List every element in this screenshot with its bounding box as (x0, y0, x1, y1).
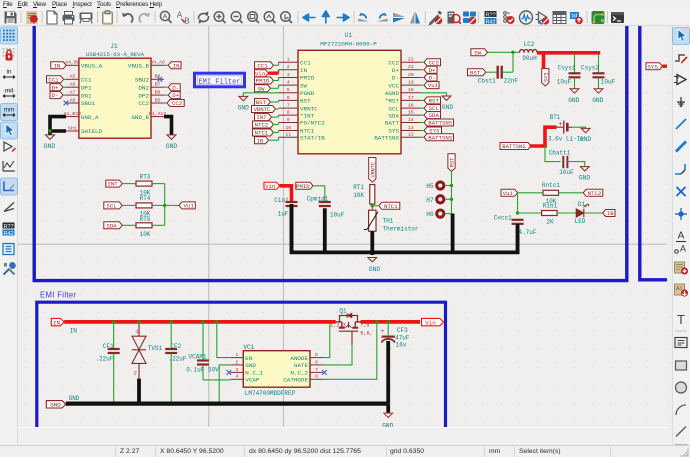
pin 1 CC1 (279, 61, 299, 63)
wire pullup common (164, 184, 166, 226)
pin GND_B (151, 116, 164, 118)
svg-text:in: in (6, 69, 11, 76)
svg-text:10K: 10K (140, 231, 151, 238)
svg-text:INT: INT (107, 181, 118, 188)
pin 10 NTC1 (279, 130, 299, 132)
svg-text:SW: SW (300, 82, 308, 89)
battery BT1 (548, 114, 584, 142)
wire GND_A bus (50, 117, 66, 131)
svg-text:IN: IN (53, 319, 61, 326)
hier label Vin (node) highlighted (264, 182, 280, 189)
wire SYS right highlighted (663, 64, 671, 67)
junction CF1 bottom (112, 402, 115, 405)
svg-text:U1: U1 (345, 32, 353, 39)
wire GND pin riser (219, 365, 230, 404)
svg-text:RT5: RT5 (140, 216, 151, 223)
svg-text:DN2: DN2 (138, 84, 149, 91)
svg-text:GND: GND (592, 97, 603, 104)
svg-text:1uF: 1uF (278, 210, 289, 217)
pin 4 SW (279, 84, 299, 86)
thermistor TH1 (364, 210, 419, 232)
svg-text:D+: D+ (392, 67, 400, 74)
svg-text:6: 6 (287, 95, 290, 101)
svg-text:3: 3 (235, 367, 238, 373)
svg-text:mil: mil (5, 88, 14, 95)
svg-text:17: 17 (408, 95, 414, 101)
svg-text:22: 22 (408, 57, 414, 63)
hier label SDA (node) (104, 222, 123, 229)
pin 22 CC2 (401, 61, 421, 63)
wire Rib1 branch (517, 193, 519, 213)
svg-text:10uF: 10uF (330, 212, 345, 219)
junction H5 (450, 184, 453, 187)
pin 6 GATE (310, 364, 323, 366)
hier label CC2 (U1) (424, 59, 441, 66)
wire Csys1 stub (574, 54, 576, 73)
wire RT1 bottom (371, 204, 373, 210)
svg-text:CC2: CC2 (429, 59, 440, 66)
svg-text:10uF: 10uF (559, 169, 574, 176)
svg-text:mm: mm (4, 107, 15, 114)
capacitor Cpmid1 (307, 195, 345, 218)
ground J1 right (166, 135, 177, 150)
svg-text:PMID: PMID (256, 78, 270, 85)
svg-text:Csys2: Csys2 (581, 65, 599, 72)
wire Csys1 gnd (574, 78, 576, 89)
ground Csys2 (592, 89, 603, 104)
svg-text:3: 3 (287, 72, 290, 78)
ground J1 left (44, 131, 55, 150)
svg-text:10K: 10K (353, 192, 364, 199)
svg-text:PMID: PMID (300, 75, 315, 82)
svg-text:.22uF: .22uF (95, 356, 113, 363)
pin DN2 (151, 86, 164, 88)
svg-text:B5: B5 (155, 97, 161, 103)
svg-text:GND: GND (580, 136, 591, 143)
svg-text:GATE: GATE (294, 362, 309, 369)
wire Rntc1 to NTC2 (559, 192, 584, 194)
svg-text:Vu1: Vu1 (428, 82, 439, 89)
svg-text:TH1: TH1 (383, 217, 394, 224)
wire CATHODE riser (323, 324, 377, 380)
svg-text:BATTSNS: BATTSNS (428, 134, 452, 141)
svg-text:11: 11 (285, 132, 291, 138)
svg-text:D-: D- (429, 75, 436, 82)
hier label SYS (U1 pin13) (424, 127, 442, 134)
wire RT3 right (152, 183, 165, 185)
svg-text:1: 1 (136, 329, 139, 335)
svg-text:D+: D+ (52, 84, 59, 91)
pin 9 FG/NTC2 (279, 122, 299, 124)
svg-text:A1,B12: A1,B12 (64, 111, 82, 117)
svg-text:5: 5 (315, 352, 318, 358)
U1 MP2722GRH-0000-P (298, 32, 401, 154)
svg-text:8: 8 (287, 110, 290, 116)
svg-text:7: 7 (287, 103, 290, 109)
svg-text:BST: BST (300, 98, 311, 105)
hier label BST (U1) (255, 99, 271, 106)
ground BT1 (580, 128, 591, 143)
wire D1 to IB (584, 212, 603, 214)
svg-text:21: 21 (408, 64, 414, 70)
testpoint H5 (426, 182, 451, 190)
svg-text:R42: R42 (485, 19, 495, 25)
pin 4 VCAP (230, 378, 243, 380)
pin DN1 (66, 94, 79, 96)
svg-text:RT3: RT3 (140, 173, 151, 180)
svg-text:SW: SW (474, 49, 481, 56)
svg-text:Vin: Vin (425, 319, 436, 326)
svg-text:NTC2: NTC2 (588, 190, 602, 197)
pin 7 VRNTC (279, 107, 299, 109)
svg-text:B7: B7 (155, 82, 161, 88)
wire RT5 right (152, 224, 165, 226)
hier label SW (U1) (255, 85, 271, 92)
hier label NTC1 (U1) (253, 129, 274, 136)
pin 2 GND (230, 364, 243, 366)
pin GND_A (66, 116, 79, 118)
svg-text:SYS: SYS (543, 72, 549, 82)
capacitor Cin1 (274, 197, 297, 217)
wire Vin highlighted (280, 186, 292, 202)
hier label PMID (U1) (255, 77, 274, 84)
hier label NTC2 (node) (583, 189, 603, 196)
svg-text:H5: H5 (426, 183, 434, 190)
hier label Vu1 (pullups) (179, 202, 195, 209)
svg-text:D-: D- (172, 84, 179, 91)
svg-text:18: 18 (408, 87, 414, 93)
capacitor CF2 (165, 324, 187, 404)
svg-text:IN: IN (70, 328, 78, 335)
wire SYS label drop (542, 53, 546, 69)
svg-text:H6: H6 (426, 211, 434, 218)
svg-text:90uH: 90uH (522, 55, 537, 62)
svg-text:EMI Filter: EMI Filter (198, 78, 240, 86)
hier label RST (vertical) (448, 154, 455, 172)
TVS diode TVS1 (132, 324, 163, 379)
junction CF2 bottom (170, 402, 173, 405)
hier label BATTSNS (U1 pin12) (424, 134, 454, 141)
wire BATTSNS highlighted (530, 127, 557, 146)
svg-text:PGND: PGND (300, 90, 315, 97)
pin DP1 (66, 86, 79, 88)
svg-text:VRNTC: VRNTC (370, 162, 376, 178)
wire Rib1 to D1 (557, 212, 576, 214)
svg-text:12: 12 (408, 132, 414, 138)
capacitor CF3 (380, 324, 410, 349)
resistor Rib1 (542, 202, 558, 225)
svg-text:A: A (177, 11, 183, 20)
svg-text:STAT/IB: STAT/IB (300, 134, 325, 141)
pin SHIELD (66, 130, 79, 132)
svg-text:VBUS_A: VBUS_A (81, 63, 103, 70)
ground Csys1 (568, 89, 579, 104)
svg-text:GND: GND (568, 97, 579, 104)
resistor RT5 (136, 216, 152, 238)
svg-text:19: 19 (408, 80, 414, 86)
hier label D- (J1 left) (50, 92, 63, 99)
svg-text:D+: D+ (429, 67, 436, 74)
hier label VRNTC (vertical) (369, 158, 376, 183)
svg-text:5: 5 (287, 87, 290, 93)
pin 12 BATTSNS (401, 136, 421, 138)
svg-text:LC2: LC2 (524, 41, 535, 48)
svg-text:7,8: 7,8 (360, 323, 369, 329)
svg-text:USB4215-03-A_REVA: USB4215-03-A_REVA (86, 51, 145, 58)
svg-text:D+: D+ (172, 92, 179, 99)
svg-text:RT4: RT4 (140, 195, 151, 202)
svg-text:SDA: SDA (388, 112, 399, 119)
svg-text:Vin: Vin (255, 70, 265, 77)
wire TH1 down (370, 231, 374, 255)
pin CC2 (151, 102, 164, 104)
svg-text:A6: A6 (69, 82, 75, 88)
wire Cbst1 to SW node (502, 71, 513, 73)
hier label CC1 (J1) (47, 76, 64, 83)
svg-text:1,2,3: 1,2,3 (330, 323, 346, 329)
ground EMI sheet (382, 413, 393, 429)
svg-text:J1: J1 (110, 43, 118, 50)
pin 6 BST (279, 99, 299, 101)
svg-text:EN: EN (245, 355, 253, 362)
svg-text:B6: B6 (155, 90, 161, 96)
hier label INT (node) (106, 180, 123, 187)
no-connect SBU1 (64, 101, 69, 106)
hier label BST (node) (468, 69, 486, 76)
junction CATHODE (375, 320, 378, 323)
junction VCAP1 top (201, 320, 204, 323)
svg-text:EMI Filter: EMI Filter (40, 291, 76, 300)
svg-text:Cvcc1: Cvcc1 (494, 214, 512, 221)
svg-text:Thermistor: Thermistor (383, 225, 419, 232)
wire GND_B (164, 117, 172, 135)
wire BST to Cbst1 (486, 71, 497, 73)
wire Cbatt1 to gnd (567, 162, 584, 167)
wire RST down (451, 171, 453, 185)
hier label NTC1 (node) (379, 202, 400, 209)
svg-text:SW: SW (258, 85, 265, 92)
svg-text:ANODE: ANODE (290, 355, 308, 362)
svg-text:CC2: CC2 (172, 100, 183, 107)
wire GATE riser (323, 345, 352, 365)
pin DP2 (151, 94, 164, 96)
svg-text:*RST: *RST (385, 98, 400, 105)
hier label D+ (U1) (424, 66, 437, 73)
svg-text:Rntc1: Rntc1 (542, 182, 560, 189)
svg-text:+: + (558, 121, 562, 129)
wire RT4 right (152, 204, 165, 206)
svg-text:VRNTC: VRNTC (300, 105, 318, 112)
pin 11 STAT/IB (279, 136, 299, 138)
junction TVS1 top (137, 320, 140, 323)
pin 21 D+ (401, 69, 421, 71)
svg-text:DP1: DP1 (81, 84, 92, 91)
hier label SYS (right sheet) (646, 63, 663, 70)
VC1 LM74700MDDFREP (243, 344, 310, 397)
wire SCL-RT4 (122, 204, 136, 206)
svg-text:VCAP: VCAP (245, 377, 260, 384)
svg-text:SH1: SH1 (68, 125, 77, 131)
wire GND stub down (386, 404, 390, 413)
wire Cbst1 up (512, 52, 514, 72)
pin CC1 (66, 78, 79, 80)
wire Csys2 stub (598, 54, 600, 73)
pin 8 CATHODE (310, 378, 323, 380)
svg-text:GND: GND (166, 143, 177, 150)
svg-text:SDA: SDA (106, 222, 117, 229)
wire ANODE riser (323, 324, 330, 358)
pin 2 IN (279, 69, 299, 71)
wire SYS net highlighted (537, 51, 600, 55)
svg-text:A: A (680, 244, 686, 254)
svg-text:13: 13 (408, 125, 414, 131)
sheet pin IN (51, 318, 64, 326)
svg-text:IB: IB (257, 137, 264, 144)
hier label IB (U1) (255, 137, 269, 144)
wire IN net right highlighted (361, 320, 421, 324)
transistor Q1 (330, 308, 373, 346)
hier label CC2 (J1) (167, 100, 184, 107)
junction CF2 top (170, 320, 173, 323)
svg-text:CC1: CC1 (81, 77, 92, 84)
svg-text:H7: H7 (426, 197, 434, 204)
pin 1 EN (230, 357, 243, 359)
ground Cbatt1 (579, 167, 590, 182)
wire testpoint chain (451, 186, 453, 214)
svg-text:VBUS_B: VBUS_B (128, 63, 150, 70)
wire SDA-RT5 (122, 224, 136, 226)
svg-text:IN: IN (300, 67, 308, 74)
svg-text:LM74700MDDFREP: LM74700MDDFREP (245, 390, 296, 397)
svg-text:10: 10 (285, 125, 291, 131)
svg-text:MP2722GRH-0000-P: MP2722GRH-0000-P (320, 41, 377, 48)
svg-text:4: 4 (287, 80, 290, 86)
svg-text:10uF: 10uF (557, 78, 572, 85)
svg-text:20: 20 (408, 72, 414, 78)
svg-text:PMID: PMID (296, 183, 310, 190)
wire Cin1 down (290, 208, 294, 251)
svg-text:IN: IN (54, 62, 61, 69)
junction NTC1 (371, 204, 374, 207)
hier label IN (J1 left) (51, 62, 66, 69)
pin VBUS_B (151, 64, 164, 66)
wire VCAP1 to VCAP pin (203, 365, 230, 380)
hier label IN (J1 right) (168, 62, 181, 69)
junction VC1 GND (218, 402, 221, 405)
svg-text:CC1: CC1 (300, 59, 311, 66)
svg-text:Vin: Vin (265, 183, 275, 190)
svg-text:Cbst1: Cbst1 (478, 78, 496, 85)
svg-text:CF3: CF3 (397, 327, 408, 334)
no-connect SBU2 (157, 77, 162, 82)
svg-text:5,6,: 5,6, (360, 330, 372, 336)
svg-text:Vu1: Vu1 (503, 190, 514, 197)
hier label RST (U1) (424, 97, 441, 104)
wire H6 down (451, 214, 455, 251)
resistor RT3 (136, 173, 152, 196)
svg-text:BST: BST (470, 69, 481, 76)
hier label Vin (U1) highlighted (255, 70, 269, 77)
LED D1 (575, 201, 589, 225)
svg-text:A8: A8 (69, 97, 75, 103)
svg-text:DN1: DN1 (81, 92, 92, 99)
junction H7 (450, 198, 453, 201)
svg-text:D-: D- (52, 92, 59, 99)
svg-text:SYS: SYS (648, 63, 659, 70)
hier label SYS (vertical) (542, 69, 549, 86)
svg-text:BATT: BATT (385, 120, 400, 127)
wire Cvcc1 down (516, 226, 520, 251)
svg-text:A7: A7 (69, 90, 75, 96)
svg-text:1: 1 (235, 352, 238, 358)
hier label INT (U1) (255, 114, 272, 121)
wire TVS1 down (137, 379, 141, 404)
resistor RT1 (353, 184, 375, 204)
hier label D- (J1 right) (168, 84, 180, 91)
wire to Vu1 (165, 204, 179, 206)
svg-text:GND: GND (44, 143, 55, 150)
svg-text:A: A (678, 231, 685, 242)
svg-text:GND: GND (579, 174, 590, 181)
svg-text:BATTSNS: BATTSNS (374, 134, 399, 141)
wire PMID (313, 186, 325, 202)
svg-text:2K: 2K (546, 218, 554, 225)
svg-text:IB: IB (607, 210, 614, 217)
svg-text:7: 7 (315, 367, 318, 373)
wire BT1 to gnd (572, 127, 586, 128)
capacitor VCAP1 (186, 324, 219, 374)
svg-text:R42: R42 (3, 231, 13, 237)
svg-text:B4,A9: B4,A9 (150, 60, 165, 66)
capacitor CF1 (95, 324, 119, 404)
svg-text:47uF: 47uF (395, 334, 410, 341)
pin SBU2 (151, 78, 164, 80)
hier label D+ (J1 left) (50, 84, 63, 91)
pin 13 SYS (401, 130, 421, 132)
svg-text:2: 2 (134, 370, 137, 376)
svg-text:4: 4 (235, 374, 238, 380)
resistor Rntc1 (542, 182, 560, 205)
junction pullups (163, 204, 166, 207)
sheet pin GND (46, 401, 66, 409)
connector J1 (79, 43, 151, 138)
hier label VRNTC (U1) (252, 106, 276, 113)
svg-text:NTC1: NTC1 (255, 130, 269, 137)
svg-text:CC1: CC1 (48, 76, 59, 83)
svg-text:VRNTC: VRNTC (254, 106, 271, 113)
pin 14 BATT (401, 122, 421, 124)
svg-text:IN: IN (173, 62, 180, 69)
junction SW (511, 51, 514, 54)
testpoint H6 (426, 210, 452, 218)
pin 8 *INT (279, 114, 299, 116)
wire Cbatt1 branch (545, 146, 561, 162)
wire CF3 down (386, 341, 390, 403)
hier label Vu1 (U1) (424, 82, 439, 89)
svg-text:LED: LED (575, 218, 586, 225)
no-connect pin3 (227, 370, 232, 375)
wire GND bus (EMI sheet) (66, 402, 388, 406)
svg-text:SHIELD: SHIELD (81, 128, 103, 135)
svg-text:DP2: DP2 (138, 92, 149, 99)
pin 3 PMID (279, 77, 299, 79)
svg-text:VCC: VCC (388, 82, 399, 89)
svg-text:*INT: *INT (300, 112, 315, 119)
svg-text:R??: R?? (3, 224, 13, 230)
svg-text:GND: GND (245, 362, 256, 369)
svg-text:14: 14 (408, 117, 414, 123)
testpoint H7 (426, 196, 451, 204)
